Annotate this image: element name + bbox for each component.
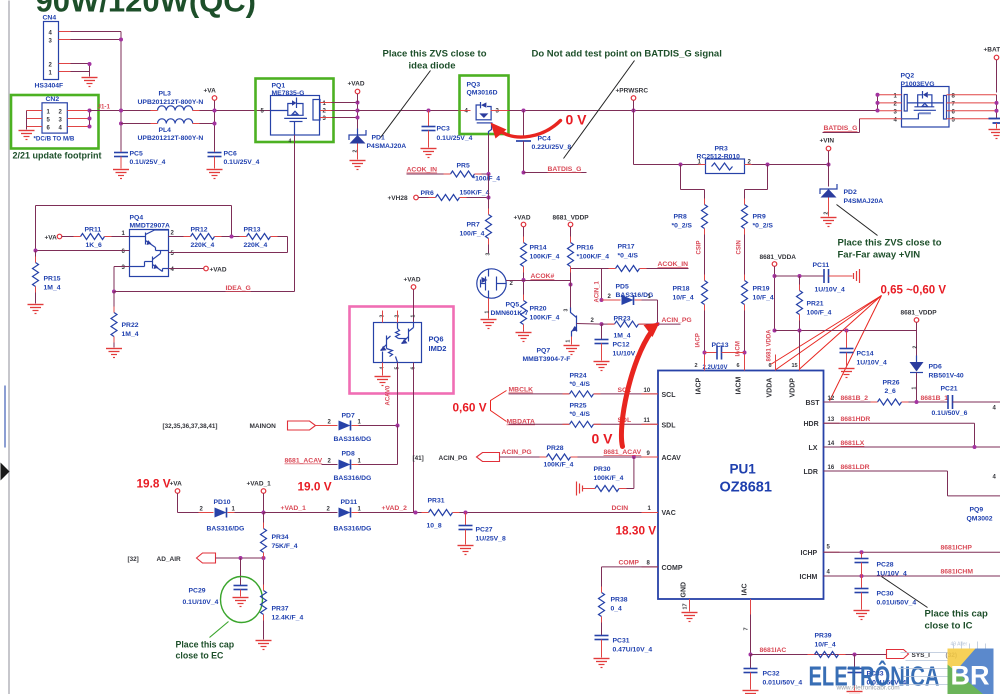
resistor PR34 [261,513,298,591]
svg-text:PR13: PR13 [244,227,261,234]
svg-text:close to IC: close to IC [925,621,973,632]
wire PQ3 source down [488,134,490,174]
svg-text:PD7: PD7 [342,413,355,420]
svg-text:10_8: 10_8 [427,523,442,530]
svg-text:PD6: PD6 [929,364,942,371]
svg-text:+VAD: +VAD [404,277,421,284]
diode PD11 [264,499,429,533]
resistor PR16 [568,243,610,285]
svg-text:ACIN_PG: ACIN_PG [502,449,532,456]
svg-text:COMP: COMP [619,560,640,567]
annotation Place this cap close to IC [882,577,989,632]
annotation Place this ZVS close to idea diode [381,49,487,138]
annotation red fan lines [771,296,882,402]
svg-text:PC29: PC29 [189,588,206,595]
svg-text:idea diode: idea diode [409,61,456,72]
svg-text:BAS316/DG: BAS316/DG [207,526,245,533]
svg-text:PR14: PR14 [530,245,547,252]
wire main net to PQ3 [358,109,460,113]
svg-text:PR20: PR20 [530,306,547,313]
zener diode PD6 [910,356,964,403]
resistor PR9 [742,205,774,281]
resistor PR7 [460,174,492,254]
svg-text:90W/120W(QC): 90W/120W(QC) [36,0,256,19]
svg-text:49 Aller: 49 Aller [951,642,968,648]
capacitor PC13 [695,342,747,371]
svg-text:CSIP: CSIP [697,240,703,254]
svg-text:CN2: CN2 [46,96,60,103]
svg-text:CN4: CN4 [43,15,57,22]
svg-text:1K_6: 1K_6 [86,242,102,249]
svg-text:PC21: PC21 [941,386,958,393]
wire PU1 GND pin17 [683,599,690,612]
resistor PR5 [451,163,501,183]
resistor PR8 [672,205,708,281]
svg-text:PQ7: PQ7 [537,348,551,355]
svg-text:Far-Far away +VIN: Far-Far away +VIN [838,250,921,261]
ground PC30 [854,611,870,620]
resistor PR28 [544,445,659,469]
dual transistor PQ4 [122,215,175,277]
svg-text:LX: LX [809,445,818,452]
svg-text:0.1U/10V_4: 0.1U/10V_4 [183,599,219,606]
svg-text:PR16: PR16 [577,245,594,252]
capacitor PC12 [595,324,640,360]
svg-text:BATDIS_G: BATDIS_G [824,125,858,132]
capacitor PC33 (under watermark) [848,655,907,691]
svg-text:10/F_4: 10/F_4 [815,642,836,649]
svg-text:PQ2: PQ2 [901,73,915,80]
mosfet PQ2 [860,73,997,128]
svg-text:100K/F_4: 100K/F_4 [594,475,624,482]
svg-text:PD5: PD5 [616,284,629,291]
svg-text:PR37: PR37 [272,606,289,613]
svg-text:PC4: PC4 [538,136,551,143]
svg-text:12.4K/F_4: 12.4K/F_4 [272,615,304,622]
svg-text:Place this ZVS close to: Place this ZVS close to [838,238,942,249]
ground PC6 [207,170,223,179]
power terminal +VAD_1 [247,481,272,515]
svg-text:11: 11 [644,418,651,424]
transistor PQ7 [523,308,602,364]
svg-text:LDR: LDR [804,469,818,476]
svg-text:OZ8681: OZ8681 [720,480,772,496]
svg-text:PR15: PR15 [44,276,61,283]
svg-text:PR28: PR28 [547,445,564,452]
svg-text:P4SMAJ20A: P4SMAJ20A [367,143,407,150]
power terminal +VA (PQ4) [45,234,81,241]
mosfet regulator PQ1 [261,83,332,145]
wire BST net [824,395,878,402]
wire net J1-1 to PL3/PL4 [90,109,154,151]
svg-text:IMD2: IMD2 [429,344,447,353]
svg-text:PR3: PR3 [715,146,728,153]
power terminal +BAT (clipped) [984,47,1000,93]
svg-text:8681_VDDP: 8681_VDDP [553,215,590,222]
svg-text:75K/F_4: 75K/F_4 [272,543,298,550]
capacitor PC14 [840,331,887,368]
power terminal +VAD (PR14) [514,215,531,243]
svg-text:+VAD: +VAD [348,81,365,88]
svg-text:100/F_4: 100/F_4 [460,231,485,238]
resistor PR30 [583,457,634,492]
svg-text:150K/F_4: 150K/F_4 [460,190,490,197]
svg-text:16: 16 [828,465,835,471]
svg-text:BR: BR [951,661,990,691]
resistor PR17 [616,244,689,272]
capacitor PC6 [208,151,260,169]
analog ground PC11 [854,269,860,283]
svg-text:+VIN: +VIN [820,138,835,145]
ground PQ6 pin4 [375,377,391,386]
svg-text:220K_4: 220K_4 [191,242,215,249]
ground PC32 [743,691,759,694]
annotation Place this cap close to EC [176,622,235,661]
svg-text:1U/10V_4: 1U/10V_4 [857,360,887,367]
port ACIN_PG (net to PR28) [500,449,547,457]
ground PQ5 [481,320,497,329]
svg-text:+VH28: +VH28 [388,195,408,202]
svg-text:*0_2/S: *0_2/S [753,223,774,230]
svg-text:QM3002: QM3002 [967,516,993,523]
svg-text:PC32: PC32 [763,671,780,678]
inductor PL4 [138,119,204,142]
wire PQ4 pin3 / IDEA_G [112,135,295,294]
svg-text:P4SMAJ20A: P4SMAJ20A [844,198,884,205]
svg-text:IACP: IACP [696,333,702,347]
svg-text:0.47U/10V_4: 0.47U/10V_4 [613,647,653,654]
svg-text:*DC/B TO M/B: *DC/B TO M/B [34,136,75,143]
capacitor PC4 (series on BATDIS_G) [516,111,571,173]
svg-text:0.1U/25V_4: 0.1U/25V_4 [130,159,166,166]
annotation [41] ACIN_PG port [413,453,500,463]
wire LX net [824,440,1000,449]
node MBCLK [509,387,570,394]
svg-text:2: 2 [824,212,830,215]
svg-text:100/F_4: 100/F_4 [807,310,832,317]
svg-text:SYS_I: SYS_I [912,652,931,659]
svg-text:0.1U/50V_6: 0.1U/50V_6 [932,410,968,417]
svg-text:PR39: PR39 [815,633,832,640]
svg-text:ACOK#: ACOK# [531,273,555,280]
wire ICHM net [824,569,1000,579]
svg-text:ACIN_PG: ACIN_PG [439,455,468,462]
wire PU1 IAC pin7 [744,599,753,657]
capacitor PC31 [595,636,653,658]
power terminal +VAD (PQ6) [404,277,421,323]
svg-text:ACOK_IN: ACOK_IN [658,261,689,268]
svg-text:6: 6 [737,363,740,369]
svg-text:1M_4: 1M_4 [122,331,139,338]
watermark ELETRONICA BR [809,642,994,694]
svg-text:PR11: PR11 [85,227,102,234]
ground PC12 [594,362,610,371]
svg-text:1M_4: 1M_4 [614,333,631,340]
svg-text:IACM: IACM [736,376,743,394]
wire CSIP leg [681,165,705,205]
svg-text:PC27: PC27 [476,527,493,534]
ground CN4 [82,78,98,87]
annotation Place this ZVS close to Far-Far away +VIN [837,205,942,261]
svg-text:100K/F_4: 100K/F_4 [544,462,574,469]
mosfet PQ5 [477,253,529,319]
svg-text:100K/F_4: 100K/F_4 [530,254,560,261]
svg-text:PQ5: PQ5 [506,302,520,309]
svg-text:PR38: PR38 [611,597,628,604]
svg-text:PR25: PR25 [570,403,587,410]
resistor PR23 [600,316,692,340]
svg-text:3: 3 [486,253,492,256]
svg-text:UPB201212T-800Y-N: UPB201212T-800Y-N [138,99,204,106]
svg-text:PR9: PR9 [753,214,766,221]
svg-text:0.1U/25V_4: 0.1U/25V_4 [437,135,473,142]
svg-text:2: 2 [695,363,698,369]
svg-text:MMBT3904-7-F: MMBT3904-7-F [523,356,571,363]
svg-text:1U/10V_4: 1U/10V_4 [877,571,907,578]
svg-text:+VA: +VA [45,235,58,242]
svg-text:close to EC: close to EC [176,651,225,661]
svg-text:2/21 update footprint: 2/21 update footprint [13,151,102,161]
svg-text:PQ4: PQ4 [130,215,144,222]
power terminal +VAD [348,81,365,103]
svg-text:+VA: +VA [204,88,217,95]
svg-text:0.22U/25V_8: 0.22U/25V_8 [532,144,572,151]
ground PC33 [847,692,863,694]
diode PD10 [199,499,264,533]
svg-text:PR6: PR6 [421,190,434,197]
capacitor PC29 [183,558,248,606]
svg-text:BAS316/DG: BAS316/DG [334,475,372,482]
power terminal +VAD (PQ4 pin4) [169,266,227,273]
svg-text:8681 VDDA: 8681 VDDA [767,329,773,362]
wire PQ4 pin6 [34,249,130,253]
svg-text:Place this ZVS close to: Place this ZVS close to [383,49,487,60]
power terminal +VH28 [388,195,419,202]
ground PC27 [458,546,474,555]
resistor PR22 [111,292,139,348]
svg-text:PR30: PR30 [594,466,611,473]
diode PD8 [285,451,398,483]
svg-text:PQ6: PQ6 [429,335,444,344]
svg-text:PQ1: PQ1 [272,83,286,90]
svg-text:PR34: PR34 [272,534,289,541]
resistor PR25 [570,403,659,428]
svg-text:*100K/F_4: *100K/F_4 [577,254,610,261]
svg-text:0.01U/50V_4: 0.01U/50V_4 [763,680,803,687]
svg-text:UPB201212T-800Y-N: UPB201212T-800Y-N [138,135,204,142]
wire PQ4 top feedback net [36,206,232,251]
ground PR20 [516,333,532,342]
PU1 pin stubs [642,355,840,615]
svg-text:CSIN: CSIN [737,240,743,254]
resistor PR12 [169,227,247,250]
svg-text:PD11: PD11 [341,499,358,506]
resistor PR19 [742,281,774,371]
power terminal +PRWSRC [616,88,649,111]
svg-text:PR8: PR8 [674,214,687,221]
svg-text:PC11: PC11 [813,262,830,269]
capacitor PC11 [775,262,853,294]
svg-text:PC31: PC31 [613,638,630,645]
svg-text:IAC: IAC [742,583,749,595]
svg-text:1M_4: 1M_4 [44,285,61,292]
svg-text:*0_4/S: *0_4/S [570,381,591,388]
wire CN2 right pins bus [88,109,92,129]
svg-text:PR17: PR17 [618,244,635,251]
ground PC14 [839,369,855,378]
diode PD7 [322,413,400,465]
svg-text:PR5: PR5 [457,163,470,170]
svg-text:8681_ACAV: 8681_ACAV [285,458,323,465]
red component pin stubs [36,111,909,655]
svg-text:HDR: HDR [804,421,819,428]
svg-text:PC5: PC5 [130,151,143,158]
svg-text:ACAV: ACAV [662,455,682,462]
annotation Do Not add test point on BATDIS_G signal [532,49,722,159]
svg-text:+VAD_2: +VAD_2 [382,505,408,512]
svg-text:PC12: PC12 [613,342,630,349]
wire CN2 left pins to ground [26,111,28,130]
svg-text:PR24: PR24 [570,373,587,380]
capacitor PC32 [744,655,803,690]
IC PU1 OZ8681 [658,363,824,599]
svg-text:BAS316/DG: BAS316/DG [334,436,372,443]
svg-text:1: 1 [411,315,417,318]
connector CN4 [35,15,71,90]
green highlight box PQ3 [460,76,509,135]
svg-text:ICHM: ICHM [800,574,818,581]
resistor PR3 [697,146,831,174]
wire ICHP net [824,545,1000,555]
svg-text:PR22: PR22 [122,322,139,329]
svg-text:DCIN: DCIN [612,505,629,512]
green highlight box PQ1 [256,79,334,143]
inductor PL3 [138,91,204,111]
node ACOK# [506,273,554,281]
port SYS_I [887,650,958,660]
svg-text:1: 1 [485,311,491,314]
svg-text:1U/10V_4: 1U/10V_4 [815,287,845,294]
wire PQ2 source bus [876,93,880,113]
power terminal 8681_VDDP (PR16) [553,215,590,243]
svg-text:PR12: PR12 [191,227,208,234]
svg-text:BST: BST [806,400,821,407]
svg-text:ACOK_IN: ACOK_IN [407,167,438,174]
svg-text:PC28: PC28 [877,562,894,569]
resistor PR20 [521,301,560,332]
resistor PR24 [570,373,659,397]
svg-text:10: 10 [644,388,651,394]
capacitor PC28 [855,552,907,577]
svg-text:*0_4/S: *0_4/S [570,411,591,418]
svg-text:COMP: COMP [662,565,683,572]
svg-text:2_6: 2_6 [885,388,897,395]
svg-text:[41]: [41] [413,455,424,462]
svg-text:8681ICHM: 8681ICHM [941,569,974,576]
wire HDR net [824,416,975,447]
svg-text:PR18: PR18 [673,286,690,293]
svg-text:1U/25V_8: 1U/25V_8 [476,536,506,543]
connector CN2 [27,96,90,143]
power terminal 8681_VDDA [760,254,797,333]
wire CSIN leg [745,165,768,205]
power terminal +VIN [820,138,835,187]
analog ground PR30 [577,482,583,496]
svg-text:ACAV0: ACAV0 [386,385,392,406]
resistor PR18 [673,281,708,371]
node BATDIS_G left [522,166,587,175]
capacitor PC3 [422,111,473,148]
capacitor PC30 [855,576,917,610]
svg-text:PR21: PR21 [807,301,824,308]
resistor PR6 [419,190,491,201]
power terminal +VA [204,88,217,111]
svg-text:13: 13 [828,417,835,423]
ground CN2 [19,131,35,140]
svg-text:SCL: SCL [662,392,677,399]
node MBDATA [507,419,570,426]
sheet edge arrow [1,463,10,481]
svg-text:QM3016D: QM3016D [467,90,498,97]
svg-text:PC30: PC30 [877,591,894,598]
svg-text:+BAT: +BAT [984,47,1000,54]
ground PC29 [233,598,249,607]
node BATDIS_G right [823,119,860,133]
svg-text:14: 14 [828,441,835,447]
power terminal 8681_VDDP [901,310,938,361]
svg-text:+PRWSRC: +PRWSRC [616,88,649,95]
zener diode PD1 [349,129,406,160]
svg-text:+VAD_1: +VAD_1 [281,505,307,512]
svg-text:GND: GND [681,582,688,598]
pink highlight box PQ6 [350,307,454,394]
resistor PR37 [261,591,304,640]
svg-text:PD10: PD10 [214,499,231,506]
wire PQ2 drain bus to battery [995,95,999,119]
svg-text:8681LX: 8681LX [841,440,865,447]
svg-text:+VAD_1: +VAD_1 [247,481,272,488]
svg-text:PC13: PC13 [712,342,729,349]
red arrow to ACIN_PG [621,323,659,447]
svg-text:PU1: PU1 [730,462,757,477]
svg-text:100K/F_4: 100K/F_4 [530,315,560,322]
capacitor PC27 [459,513,506,545]
ground PR22 [106,349,122,358]
svg-text:18.30 V: 18.30 V [616,524,657,538]
capacitor PC21 [932,386,1000,418]
svg-text:AD_AIR: AD_AIR [157,556,182,563]
green circle PC29 [221,577,263,623]
capacitor PC5 [114,151,166,169]
diode PD5 [600,284,658,325]
wire PQ3 to +PRWSRC net [509,109,878,113]
resistor PR38 [599,593,628,636]
svg-text:8681B_1: 8681B_1 [921,395,949,402]
wire ACOK_IN row [571,269,616,300]
svg-text:PQ9: PQ9 [970,507,984,514]
wire PQ1 pins to +VAD node [332,101,360,134]
ground PC5 [113,170,129,179]
svg-text:8681_VDDP: 8681_VDDP [901,310,938,317]
svg-text:0 V: 0 V [566,112,588,128]
mosfet PQ3 [460,82,509,135]
ground PR37 [256,641,272,650]
svg-text:0.1U/25V_4: 0.1U/25V_4 [224,159,260,166]
svg-text:19.8 V: 19.8 V [137,477,171,491]
svg-text:PC6: PC6 [224,151,237,158]
svg-text:IDEA_G: IDEA_G [226,285,251,292]
ground battery [989,130,1000,139]
